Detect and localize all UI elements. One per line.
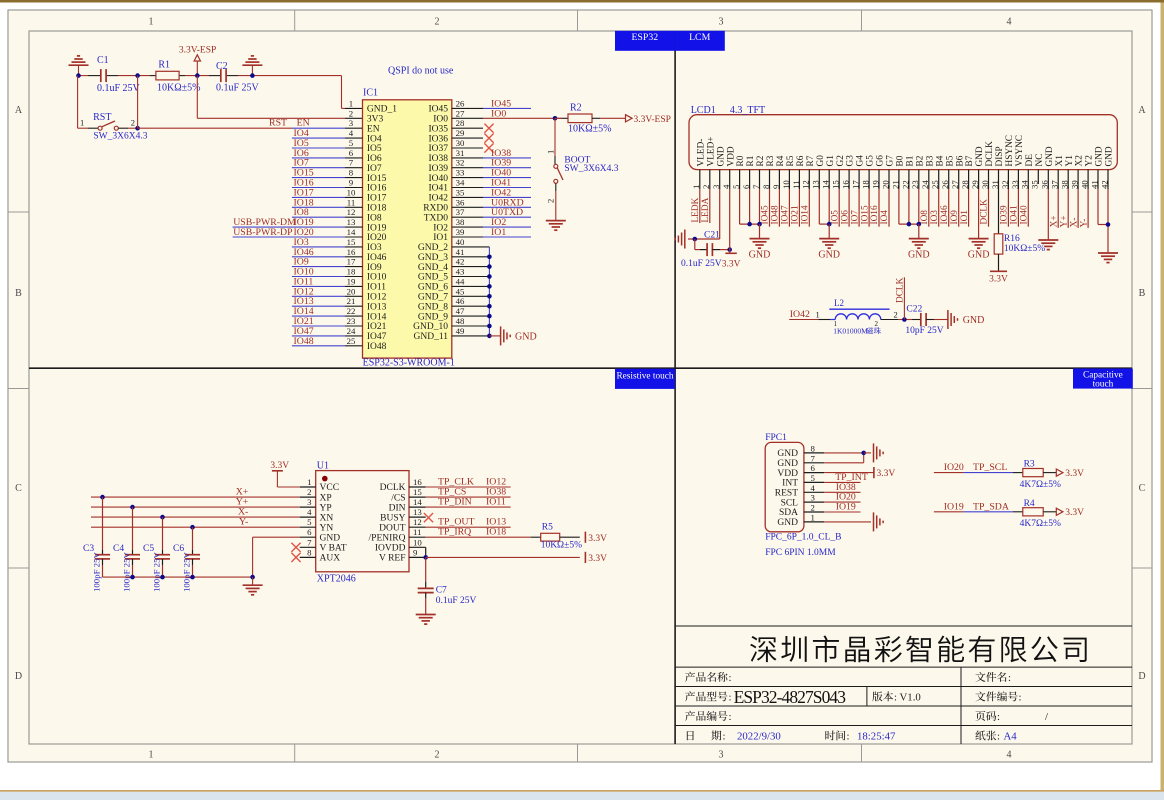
svg-text:ESP32: ESP32 bbox=[631, 32, 658, 43]
svg-text:R1: R1 bbox=[158, 60, 170, 71]
svg-text:26: 26 bbox=[940, 180, 950, 189]
wire IO42 to bead bbox=[789, 319, 818, 321]
resistor R16 bbox=[998, 189, 1000, 234]
svg-text:GND: GND bbox=[320, 533, 341, 543]
svg-text:3: 3 bbox=[811, 493, 816, 503]
svg-text:22: 22 bbox=[347, 306, 356, 316]
no-connect pin bbox=[452, 137, 483, 139]
svg-text:28: 28 bbox=[456, 118, 465, 128]
inductor / ferrite bead L2 bbox=[830, 319, 835, 321]
svg-text:26: 26 bbox=[456, 98, 465, 108]
wire net IO3 bbox=[292, 246, 345, 248]
wire + net label LEDA (LCD pin 2) bbox=[709, 189, 711, 223]
svg-text:10KΩ±5%: 10KΩ±5% bbox=[157, 83, 200, 94]
svg-text:VDD: VDD bbox=[726, 146, 736, 166]
svg-text:24: 24 bbox=[920, 180, 930, 189]
LCD pin29 GND wire bbox=[978, 189, 980, 239]
svg-text:GND_1: GND_1 bbox=[367, 105, 397, 115]
wire net U0RXD bbox=[452, 206, 483, 208]
svg-text:IO39: IO39 bbox=[428, 164, 448, 174]
resistor R1 bbox=[156, 71, 179, 80]
svg-text:3.3V: 3.3V bbox=[877, 469, 896, 479]
wire + net label IO14 (LCD pin 12) bbox=[808, 189, 810, 227]
svg-text:B: B bbox=[1139, 288, 1146, 299]
resistor R2 bbox=[555, 117, 562, 119]
svg-text:IO48: IO48 bbox=[367, 342, 387, 352]
svg-text:10: 10 bbox=[413, 537, 422, 547]
svg-text:SW_3X6X4.3: SW_3X6X4.3 bbox=[564, 164, 618, 174]
svg-text:20: 20 bbox=[347, 286, 356, 296]
company name 深圳市晶彩智能有限公司 bbox=[750, 635, 1087, 662]
connector FPC1 body bbox=[765, 442, 804, 531]
svg-text:IO15: IO15 bbox=[860, 205, 870, 224]
svg-text:1: 1 bbox=[811, 512, 815, 522]
svg-text:B: B bbox=[15, 288, 22, 299]
svg-text:16: 16 bbox=[413, 477, 422, 487]
svg-text:YN: YN bbox=[320, 523, 334, 533]
svg-text:GND_6: GND_6 bbox=[418, 283, 448, 293]
junction at C2 ground bbox=[250, 73, 255, 78]
svg-text:3.3V: 3.3V bbox=[1065, 508, 1084, 518]
svg-text:0.1uF 25V: 0.1uF 25V bbox=[97, 83, 141, 94]
wire net Y- bbox=[91, 526, 300, 528]
svg-text:2: 2 bbox=[875, 320, 879, 328]
junction GND bus bbox=[487, 284, 492, 289]
svg-text:11: 11 bbox=[791, 181, 801, 189]
svg-text:22: 22 bbox=[900, 180, 910, 189]
window right strip bbox=[1161, 3, 1164, 791]
svg-text:C21: C21 bbox=[704, 231, 720, 241]
svg-text:3: 3 bbox=[349, 118, 354, 128]
svg-text:13: 13 bbox=[811, 180, 821, 189]
svg-text:L2: L2 bbox=[834, 298, 844, 308]
svg-text:Y1: Y1 bbox=[1065, 155, 1075, 167]
junction C21 top bbox=[693, 237, 698, 242]
section header box ESP32 bbox=[615, 31, 675, 51]
power port 3.3V (R5) bbox=[584, 532, 586, 543]
no-connect pin bbox=[452, 127, 483, 129]
wire + net label IO16 (LCD pin 19) bbox=[878, 189, 880, 227]
svg-text:EN: EN bbox=[297, 118, 310, 129]
svg-text:10: 10 bbox=[781, 180, 791, 189]
svg-text:0.1uF 25V: 0.1uF 25V bbox=[436, 596, 477, 606]
wire U1 GND to cap rail bbox=[253, 536, 300, 538]
svg-text::: : bbox=[723, 731, 726, 743]
svg-text:42: 42 bbox=[456, 257, 465, 267]
svg-text:G6: G6 bbox=[876, 155, 886, 167]
svg-text:2: 2 bbox=[349, 108, 353, 118]
svg-text:14: 14 bbox=[821, 180, 831, 189]
wire net IO15 bbox=[292, 177, 345, 179]
capacitor C6 bbox=[192, 527, 194, 550]
svg-text:2: 2 bbox=[435, 750, 440, 761]
svg-text:GND: GND bbox=[908, 250, 930, 261]
svg-text:IO5: IO5 bbox=[367, 144, 382, 154]
svg-text:IO48: IO48 bbox=[771, 205, 781, 224]
svg-text:3: 3 bbox=[307, 497, 312, 507]
svg-text:38: 38 bbox=[456, 217, 465, 227]
svg-text:21: 21 bbox=[347, 296, 356, 306]
ground (FPC bottom) bbox=[873, 512, 875, 531]
svg-text:47: 47 bbox=[456, 306, 465, 316]
wire + net label IO21 (LCD pin 11) bbox=[798, 189, 800, 227]
junction rail bbox=[130, 575, 135, 580]
svg-text:ESP32-S3-WROOM-1: ESP32-S3-WROOM-1 bbox=[363, 358, 455, 369]
svg-text:2: 2 bbox=[307, 487, 311, 497]
svg-text:R4: R4 bbox=[1024, 499, 1035, 509]
resistor R3 bbox=[1023, 469, 1043, 477]
svg-text:1: 1 bbox=[816, 310, 820, 320]
svg-text:18:25:47: 18:25:47 bbox=[857, 731, 896, 743]
svg-text:IO13: IO13 bbox=[367, 302, 387, 312]
wire + net label IO20 (FPC) bbox=[824, 501, 860, 503]
wire net TP_OUT bbox=[409, 526, 426, 528]
svg-text:9: 9 bbox=[413, 547, 418, 557]
wire net IO46 bbox=[292, 256, 345, 258]
LCD pins41-42 ground bbox=[1097, 189, 1099, 225]
svg-text:LCD1: LCD1 bbox=[691, 105, 716, 116]
junction GND bus bbox=[487, 294, 492, 299]
no-connect pin bbox=[452, 147, 483, 149]
svg-text:100pF 25V: 100pF 25V bbox=[92, 552, 102, 592]
svg-text:1: 1 bbox=[80, 117, 84, 127]
svg-text:B1: B1 bbox=[906, 155, 916, 166]
svg-text:8: 8 bbox=[811, 443, 816, 453]
section header box Resistive touch bbox=[615, 369, 675, 389]
svg-text:IO40: IO40 bbox=[1020, 205, 1030, 224]
svg-text:IO0: IO0 bbox=[491, 108, 506, 119]
ground GND (LCD B group) bbox=[909, 238, 929, 240]
svg-text:11: 11 bbox=[347, 197, 355, 207]
svg-text:6: 6 bbox=[307, 527, 312, 537]
svg-text:1: 1 bbox=[149, 17, 154, 28]
svg-text:YP: YP bbox=[320, 503, 332, 513]
wire net IO9 bbox=[292, 266, 345, 268]
svg-text:GND_8: GND_8 bbox=[418, 302, 448, 312]
wire + net label IO38 (FPC) bbox=[824, 491, 860, 493]
wire + net label DCLK (LCD pin 30) bbox=[988, 189, 990, 227]
wire net IO39 bbox=[452, 167, 483, 169]
svg-text:7: 7 bbox=[307, 537, 312, 547]
svg-text:33: 33 bbox=[456, 168, 465, 178]
wire cap ground rail bbox=[103, 576, 253, 578]
svg-text:IO11: IO11 bbox=[367, 283, 386, 293]
svg-text::: : bbox=[847, 731, 850, 743]
svg-text:GND_5: GND_5 bbox=[418, 273, 448, 283]
svg-text:37: 37 bbox=[1050, 180, 1060, 189]
wire + net label IO47 (LCD pin 10) bbox=[788, 189, 790, 227]
resistor R4 bbox=[1023, 508, 1043, 516]
svg-text:30: 30 bbox=[980, 180, 990, 189]
svg-text:touch: touch bbox=[1093, 380, 1114, 390]
svg-text:27: 27 bbox=[950, 180, 960, 189]
svg-text:TP_DIN: TP_DIN bbox=[438, 497, 472, 508]
svg-text:100pF 25V: 100pF 25V bbox=[152, 552, 162, 592]
svg-text:GND_9: GND_9 bbox=[418, 312, 448, 322]
svg-text:/PENIRQ: /PENIRQ bbox=[369, 533, 406, 543]
wire + net label TP_INT bbox=[824, 481, 860, 483]
svg-text:X1: X1 bbox=[1055, 155, 1065, 167]
svg-text:R5: R5 bbox=[786, 155, 796, 166]
wire net IO41 bbox=[452, 187, 483, 189]
svg-text:FPC 6PIN 1.0MM: FPC 6PIN 1.0MM bbox=[765, 548, 836, 558]
svg-text:1: 1 bbox=[149, 750, 154, 761]
svg-text:IO19: IO19 bbox=[836, 502, 856, 513]
svg-text:IO12: IO12 bbox=[367, 293, 387, 303]
capacitor C3 bbox=[102, 497, 104, 550]
wire net IO19 bbox=[233, 226, 345, 228]
svg-text:G0: G0 bbox=[816, 155, 826, 167]
wire net X- bbox=[91, 516, 300, 518]
svg-text:G4: G4 bbox=[856, 155, 866, 167]
svg-text:4: 4 bbox=[1007, 17, 1012, 28]
wire net IO17 bbox=[292, 196, 345, 198]
svg-text:B5: B5 bbox=[945, 155, 955, 166]
svg-text:4K7Ω±5%: 4K7Ω±5% bbox=[1020, 480, 1061, 490]
svg-text:2: 2 bbox=[894, 310, 898, 320]
window bottom strips bbox=[0, 790, 1164, 792]
junction X line / C5 bbox=[160, 515, 165, 520]
ground (top, at C2) bbox=[242, 64, 262, 66]
section header box Capacitive touch bbox=[1073, 369, 1133, 389]
svg-text:IO8: IO8 bbox=[367, 213, 382, 223]
power port 3.3V arrow bbox=[1056, 469, 1063, 476]
svg-text:IO6: IO6 bbox=[367, 154, 382, 164]
svg-text:/CS: /CS bbox=[391, 493, 405, 503]
svg-text:17: 17 bbox=[851, 180, 861, 189]
wire VREF to 3.3V bbox=[426, 556, 580, 558]
svg-text:IO40: IO40 bbox=[428, 174, 448, 184]
wire net IO1 bbox=[452, 236, 483, 238]
svg-text:IO3: IO3 bbox=[367, 243, 382, 253]
svg-text:28: 28 bbox=[960, 180, 970, 189]
power port 3.3V (R16) bbox=[990, 270, 1007, 272]
ground (BOOT) bbox=[546, 220, 566, 222]
svg-text:44: 44 bbox=[456, 276, 465, 286]
svg-text:IO3: IO3 bbox=[930, 210, 940, 225]
wire net IO11 bbox=[292, 285, 345, 287]
wire net IO2 bbox=[452, 226, 483, 228]
svg-text:: V1.0: : V1.0 bbox=[894, 692, 921, 704]
svg-text:C2: C2 bbox=[216, 61, 228, 72]
wire + net label IO15 (LCD pin 18) bbox=[868, 189, 870, 227]
power port 3.3V-ESP (at R2) bbox=[626, 115, 633, 122]
no-connect BUSY bbox=[409, 516, 426, 518]
wire + net label IO48 (LCD pin 9) bbox=[778, 189, 780, 227]
svg-text:IO20: IO20 bbox=[944, 462, 964, 473]
junction GND bus bbox=[487, 254, 492, 259]
svg-text::: : bbox=[1008, 672, 1011, 684]
svg-text:IO5: IO5 bbox=[830, 210, 840, 225]
svg-text:39: 39 bbox=[456, 227, 465, 237]
power port 3.3V arrow bbox=[1056, 508, 1063, 515]
svg-text:B0: B0 bbox=[896, 155, 906, 166]
svg-text:16: 16 bbox=[841, 180, 851, 189]
svg-text:IO42: IO42 bbox=[790, 309, 810, 320]
junction rail/GND bbox=[250, 575, 255, 580]
svg-text:10pF 25V: 10pF 25V bbox=[905, 326, 943, 336]
svg-text::: : bbox=[1019, 692, 1022, 704]
svg-text:IO19: IO19 bbox=[944, 501, 964, 512]
svg-text:NC: NC bbox=[1035, 154, 1045, 167]
svg-text:IO19: IO19 bbox=[367, 223, 387, 233]
svg-text:GND: GND bbox=[777, 518, 798, 528]
svg-text:GND: GND bbox=[975, 146, 985, 166]
wire + net label IO4 (LCD pin 20) bbox=[888, 189, 890, 227]
wire + net label IO46 (LCD pin 26) bbox=[948, 189, 950, 227]
svg-text:100pF 25V: 100pF 25V bbox=[182, 552, 192, 592]
svg-text:G1: G1 bbox=[826, 155, 836, 167]
svg-text:8: 8 bbox=[761, 184, 771, 189]
svg-text:IO18: IO18 bbox=[367, 204, 387, 214]
ground (C7) bbox=[416, 614, 436, 616]
svg-text:XP: XP bbox=[320, 493, 332, 503]
junction C21/3.3V bbox=[727, 247, 732, 252]
svg-text:2022/9/30: 2022/9/30 bbox=[737, 731, 781, 743]
svg-text::: : bbox=[997, 731, 1000, 743]
svg-text:3.3V: 3.3V bbox=[270, 461, 289, 471]
svg-text:GND_3: GND_3 bbox=[418, 253, 448, 263]
svg-text:19: 19 bbox=[870, 180, 880, 189]
svg-text::: : bbox=[729, 711, 732, 723]
svg-text:25: 25 bbox=[347, 336, 356, 346]
wire + net label IO7 (LCD pin 17) bbox=[858, 189, 860, 227]
svg-text:15: 15 bbox=[831, 180, 841, 189]
svg-text:A4: A4 bbox=[1004, 731, 1018, 743]
svg-text:/: / bbox=[1045, 711, 1048, 723]
svg-text:IO36: IO36 bbox=[428, 134, 448, 144]
title block row labels bbox=[685, 672, 728, 682]
svg-text:8: 8 bbox=[349, 168, 354, 178]
op-amp: none; component IC1 ESP32-S3-WROOM-1 module body bbox=[363, 100, 452, 358]
svg-text:41: 41 bbox=[456, 247, 465, 257]
border band column/row tick lines bbox=[294, 10, 296, 31]
svg-text:SCL: SCL bbox=[781, 498, 799, 508]
junction GND bus bbox=[487, 304, 492, 309]
svg-text:2: 2 bbox=[701, 185, 711, 189]
svg-text:IO14: IO14 bbox=[367, 312, 387, 322]
ground GND (right of IC1) bbox=[500, 326, 502, 345]
svg-text:IO47: IO47 bbox=[367, 332, 387, 342]
wire net Y+ bbox=[91, 506, 300, 508]
svg-text:31: 31 bbox=[990, 180, 1000, 189]
svg-text:6: 6 bbox=[741, 184, 751, 189]
svg-text:FPC_6P_1.0_CL_B: FPC_6P_1.0_CL_B bbox=[765, 533, 841, 543]
wire + net label IO19 (FPC) bbox=[824, 511, 860, 513]
svg-text:IO39: IO39 bbox=[1000, 205, 1010, 224]
svg-text:IO17: IO17 bbox=[367, 194, 387, 204]
svg-text:3.3V: 3.3V bbox=[588, 554, 607, 564]
svg-text:RST: RST bbox=[269, 118, 287, 129]
svg-text:18: 18 bbox=[861, 180, 871, 189]
svg-text:12: 12 bbox=[801, 180, 811, 189]
svg-text:G7: G7 bbox=[886, 155, 896, 167]
svg-text:6: 6 bbox=[349, 148, 354, 158]
svg-text:IO16: IO16 bbox=[870, 205, 880, 224]
svg-text:3.3V-ESP: 3.3V-ESP bbox=[179, 46, 216, 56]
svg-text:IO37: IO37 bbox=[428, 144, 448, 154]
svg-text:IO7: IO7 bbox=[850, 210, 860, 225]
svg-text:IO41: IO41 bbox=[1010, 205, 1020, 224]
capacitor C22 bbox=[912, 319, 921, 321]
svg-text:B3: B3 bbox=[925, 155, 935, 166]
svg-text:R1: R1 bbox=[746, 155, 756, 166]
svg-text:14: 14 bbox=[347, 227, 356, 237]
ground (top-left, at C1) bbox=[69, 64, 89, 66]
wire + net label IO40 (LCD pin 34) bbox=[1027, 189, 1029, 227]
LCD R0-R2 ground group bbox=[739, 189, 741, 224]
svg-text:HSYNC: HSYNC bbox=[1005, 135, 1015, 167]
svg-text:IO1: IO1 bbox=[433, 233, 448, 243]
section divider lines bbox=[29, 367, 1132, 369]
svg-text:1: 1 bbox=[546, 150, 556, 154]
svg-text:32: 32 bbox=[1000, 180, 1010, 189]
svg-text:IO9: IO9 bbox=[367, 263, 382, 273]
svg-text:VSYNC: VSYNC bbox=[1015, 135, 1025, 167]
svg-text:3.3V: 3.3V bbox=[989, 275, 1008, 285]
svg-text:LCM: LCM bbox=[689, 32, 711, 43]
svg-text:IO38: IO38 bbox=[428, 154, 448, 164]
svg-text:18: 18 bbox=[347, 267, 356, 277]
svg-text:2: 2 bbox=[811, 503, 815, 513]
svg-text:B4: B4 bbox=[935, 155, 945, 166]
svg-text:GND: GND bbox=[818, 250, 840, 261]
svg-text:IO18: IO18 bbox=[486, 527, 506, 538]
svg-text:12: 12 bbox=[413, 517, 422, 527]
svg-text:23: 23 bbox=[347, 316, 356, 326]
svg-text:VLED+: VLED+ bbox=[706, 136, 716, 166]
svg-text:C7: C7 bbox=[436, 586, 447, 596]
svg-text:100pF 25V: 100pF 25V bbox=[122, 552, 132, 592]
svg-text:R2: R2 bbox=[570, 103, 582, 114]
svg-text:DCLK: DCLK bbox=[985, 141, 995, 167]
svg-text:IO14: IO14 bbox=[801, 205, 811, 224]
wire 3V3 branch to pin2 bbox=[196, 76, 198, 119]
svg-text:D: D bbox=[15, 671, 22, 682]
svg-text:13: 13 bbox=[347, 217, 356, 227]
svg-text:DISP: DISP bbox=[995, 146, 1005, 166]
wire net IO12 bbox=[292, 295, 345, 297]
svg-text:TXD0: TXD0 bbox=[424, 213, 449, 223]
svg-text:20: 20 bbox=[880, 180, 890, 189]
svg-text:TP_SDA: TP_SDA bbox=[973, 501, 1009, 512]
svg-text:45: 45 bbox=[456, 286, 465, 296]
wire net U0TXD bbox=[452, 216, 483, 218]
svg-text:DE: DE bbox=[1025, 154, 1035, 167]
wire net TP_CLK bbox=[409, 486, 426, 488]
svg-text:35: 35 bbox=[1030, 180, 1040, 189]
wire + net label IO45 (LCD pin 8) bbox=[769, 189, 771, 227]
svg-text:10KΩ±5%: 10KΩ±5% bbox=[568, 124, 611, 135]
svg-text:43: 43 bbox=[456, 267, 465, 277]
junction X line / C6 bbox=[190, 525, 195, 530]
wire net IO20 bbox=[233, 236, 345, 238]
capacitor C4 bbox=[132, 507, 134, 550]
capacitor C5 bbox=[162, 517, 164, 550]
svg-text:IO45: IO45 bbox=[761, 205, 771, 224]
svg-text:GND: GND bbox=[968, 250, 990, 261]
svg-text:XPT2046: XPT2046 bbox=[317, 574, 356, 585]
svg-text:37: 37 bbox=[456, 207, 465, 217]
svg-text:4: 4 bbox=[811, 483, 816, 493]
svg-text:4: 4 bbox=[1007, 750, 1012, 761]
wire + net label IO8 (LCD pin 24) bbox=[928, 189, 930, 227]
svg-text::: : bbox=[729, 692, 732, 704]
ground (LCD pin36) bbox=[1038, 239, 1058, 241]
wire rail top-left RC reset net bbox=[78, 75, 88, 77]
wire + net label DCLK (vertical) bbox=[903, 277, 905, 319]
wire net IO6 bbox=[292, 157, 345, 159]
